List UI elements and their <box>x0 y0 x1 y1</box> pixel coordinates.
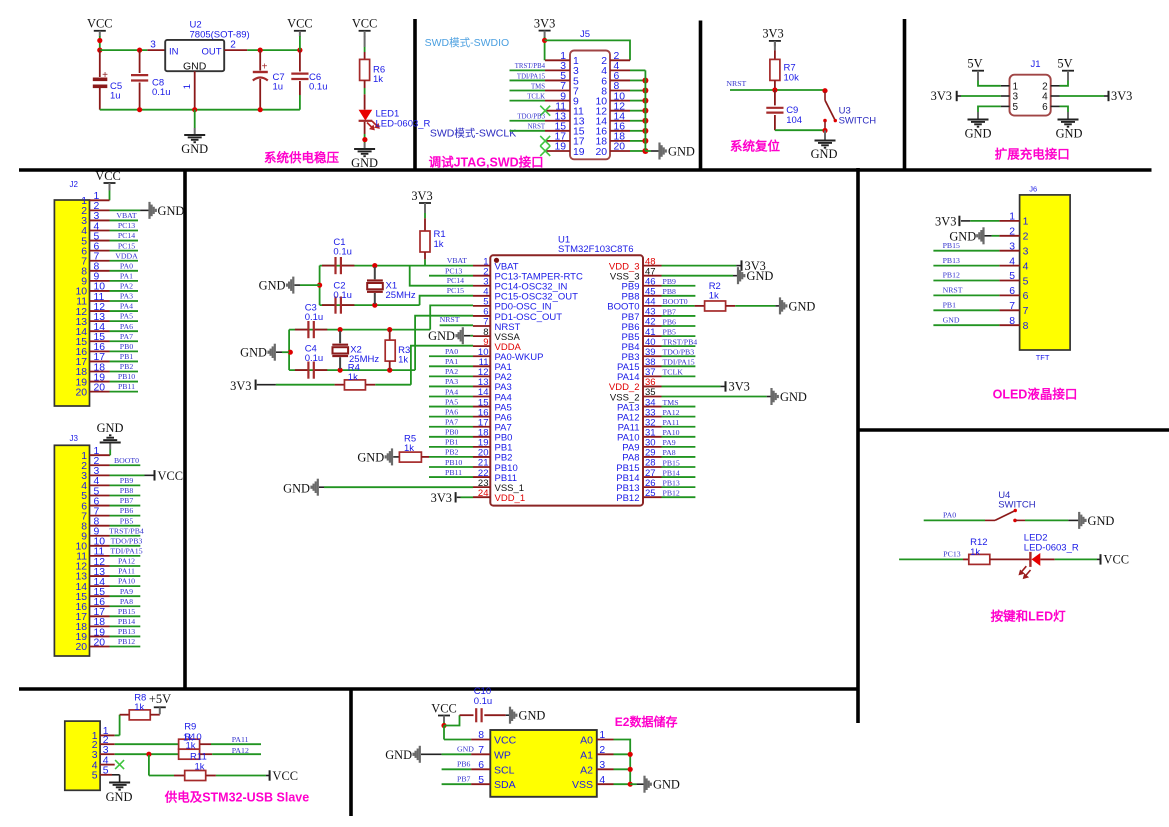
svg-text:系统供电稳压: 系统供电稳压 <box>264 150 340 165</box>
wire J3 pin 6 <box>110 505 141 507</box>
wire R10 to PA12 <box>212 753 261 755</box>
J2 pin 17 stub <box>90 360 110 362</box>
wire R9 to PA11 <box>211 743 261 745</box>
J3 pin 9 stub <box>90 535 110 537</box>
pin stub U2 pin3 IN <box>147 49 165 51</box>
wire MCU pin 14 PA4 <box>429 396 473 398</box>
svg-text:1k: 1k <box>186 741 196 752</box>
svg-text:PA1: PA1 <box>120 271 133 280</box>
svg-text:VCC: VCC <box>273 769 298 783</box>
svg-text:GND: GND <box>780 390 807 404</box>
MCU pin 41 stub <box>643 335 662 337</box>
MCU pin 20 stub <box>473 456 490 458</box>
svg-text:GND: GND <box>183 60 207 72</box>
J3 pin 6 stub <box>90 505 110 507</box>
wire MCU pin 27 PB14 <box>662 476 696 478</box>
svg-text:PA0: PA0 <box>120 261 133 270</box>
svg-text:VCC: VCC <box>95 169 120 183</box>
crystal X1 <box>374 267 376 279</box>
MCU pin 31 stub <box>643 436 662 438</box>
svg-text:PA10: PA10 <box>663 428 680 437</box>
svg-text:PB9: PB9 <box>622 282 640 293</box>
MCU pin 2 stub <box>473 275 490 277</box>
svg-text:10k: 10k <box>784 73 800 84</box>
wire bottom rail <box>100 109 300 111</box>
svg-text:SDA: SDA <box>494 779 516 791</box>
J5 pin 2 stub <box>610 59 630 61</box>
svg-text:A0: A0 <box>580 735 593 747</box>
svg-text:8: 8 <box>1023 321 1029 332</box>
junction dot bottom U2 GND <box>192 107 197 112</box>
J3 pin 4 stub <box>90 484 110 486</box>
wire WP <box>442 753 472 755</box>
MCU pin 34 stub <box>643 406 662 408</box>
svg-text:PB14: PB14 <box>118 617 135 626</box>
wire crystal2 bottom row <box>289 369 415 371</box>
svg-text:2: 2 <box>599 745 605 756</box>
ground symbol VSS_3 <box>737 267 739 284</box>
resistor R1 <box>420 231 430 252</box>
junction dot bottom C8 <box>137 107 142 112</box>
svg-text:WP: WP <box>494 749 511 761</box>
MCU pin 38 stub <box>643 365 662 367</box>
J1 pin 5 stub <box>1001 105 1010 107</box>
J3 pin 18 stub <box>90 625 110 627</box>
J5 pin 12 stub <box>610 110 630 112</box>
MCU pin 9 stub <box>473 345 490 347</box>
svg-text:1k: 1k <box>709 291 719 302</box>
resistor R9 <box>179 739 200 749</box>
svg-text:GND: GND <box>181 142 208 156</box>
MCU pin 39 stub <box>643 355 662 357</box>
wire R1 to VBAT <box>424 252 426 259</box>
wire PD0 OSC_IN from top row <box>430 305 473 329</box>
svg-text:系统复位: 系统复位 <box>730 139 781 154</box>
no-connect X USB pin4 <box>115 760 124 769</box>
wire MCU pin 46 PB9 <box>662 285 696 287</box>
wire J3 pin3 to VCC <box>110 474 145 476</box>
svg-text:TDI/PA15: TDI/PA15 <box>110 547 142 556</box>
svg-text:1k: 1k <box>348 372 358 383</box>
svg-text:PB15: PB15 <box>663 458 680 467</box>
ground symbol J5 <box>658 143 660 160</box>
wire VCC1 down <box>99 36 101 50</box>
wire J5 pin 18 to gnd bus <box>630 140 645 142</box>
svg-text:VCC: VCC <box>431 702 456 716</box>
wire J5 pin 12 to gnd bus <box>630 110 645 112</box>
svg-text:4: 4 <box>599 775 605 786</box>
wire MCU pin 33 PA12 <box>662 416 696 418</box>
svg-text:PA15: PA15 <box>617 362 640 373</box>
USB pin 2 stub <box>100 743 115 745</box>
J5 pin 11 stub <box>545 110 570 112</box>
J6 pin 5 stub <box>999 280 1019 282</box>
svg-text:GND: GND <box>965 127 992 141</box>
ground symbol J2 pin2 <box>148 202 150 219</box>
svg-text:39: 39 <box>645 347 656 358</box>
resistor R8 <box>120 714 130 716</box>
wire J2 pin 7 <box>110 260 139 262</box>
wire VCC3 to R6 <box>364 36 366 47</box>
svg-text:0.1u: 0.1u <box>152 87 171 98</box>
svg-text:20: 20 <box>75 642 87 653</box>
svg-text:31: 31 <box>645 427 656 438</box>
svg-text:1: 1 <box>182 84 193 89</box>
connector J5 box <box>570 51 610 160</box>
capacitor C5 polarized <box>99 50 101 77</box>
J2 pin 19 stub <box>90 381 110 383</box>
capacitor C9 <box>774 90 776 105</box>
wire J3 pin 7 <box>110 515 141 517</box>
J2 pin 4 stub <box>90 230 110 232</box>
svg-text:R9: R9 <box>184 722 196 733</box>
svg-text:NRST: NRST <box>726 79 746 88</box>
svg-text:VBAT: VBAT <box>116 211 137 220</box>
resistor R10 <box>179 749 200 759</box>
wire 5V to J1 pin2 <box>1067 71 1069 81</box>
wire J5 pin 9 <box>510 100 546 102</box>
MCU pin 14 stub <box>473 396 490 398</box>
svg-text:J6: J6 <box>1029 184 1037 193</box>
MCU pin 6 stub <box>473 315 490 317</box>
svg-text:PA14: PA14 <box>617 372 640 383</box>
section divider vertical MCU/right column <box>856 168 860 723</box>
svg-text:BOOT0: BOOT0 <box>663 297 688 306</box>
wire J2 pin2 to GND <box>110 209 141 211</box>
svg-text:VCC: VCC <box>1104 553 1129 567</box>
MCU pin 42 stub <box>643 325 662 327</box>
svg-text:20: 20 <box>614 142 626 153</box>
J3 pin 19 stub <box>90 635 110 637</box>
svg-text:PB6: PB6 <box>457 760 471 769</box>
J1 pin 2 stub <box>1051 85 1060 87</box>
MCU pin 24 stub <box>473 496 490 498</box>
svg-text:3V3: 3V3 <box>931 89 952 103</box>
wire MCU pin 38 TDI/PA15 <box>662 365 696 367</box>
svg-text:45: 45 <box>645 287 656 298</box>
wire GND to J3 pin1 <box>109 450 111 456</box>
svg-text:TDO/PB3: TDO/PB3 <box>517 114 545 121</box>
J3 pin 13 stub <box>90 575 110 577</box>
wire J1 pin4 to 3V3 <box>1060 95 1105 97</box>
svg-text:19: 19 <box>573 147 585 158</box>
svg-text:PB15: PB15 <box>616 463 639 474</box>
ground symbol J1 right <box>1058 119 1079 121</box>
svg-text:PA8: PA8 <box>622 453 639 464</box>
svg-text:104: 104 <box>786 115 802 126</box>
svg-text:0.1u: 0.1u <box>309 82 328 93</box>
svg-text:20: 20 <box>94 382 106 393</box>
J2 pin 15 stub <box>90 340 110 342</box>
capacitor C2 <box>322 304 336 306</box>
MCU pin 25 stub <box>643 496 662 498</box>
wire J5 pin 15 <box>510 130 546 132</box>
J5 pin 3 stub <box>545 69 570 71</box>
svg-text:30: 30 <box>645 438 656 449</box>
J6 pin 3 stub <box>999 250 1019 252</box>
svg-text:VDD_1: VDD_1 <box>495 493 526 504</box>
svg-text:47: 47 <box>645 266 656 277</box>
wire J2 pin 8 <box>110 270 139 272</box>
ground symbol C10 <box>506 714 510 716</box>
MCU pin 28 stub <box>643 466 662 468</box>
svg-text:PA7: PA7 <box>445 418 458 427</box>
svg-text:PB12: PB12 <box>118 637 135 646</box>
EEPROM pin 4 stub <box>597 783 614 785</box>
wire U2 OUT to VCC2 <box>247 49 300 51</box>
wire MCU pin 22 PB11 <box>429 476 473 478</box>
wire MCU pin 15 PA5 <box>429 406 473 408</box>
svg-text:7: 7 <box>1023 306 1029 317</box>
svg-text:6: 6 <box>1023 291 1029 302</box>
wire PC15 from C2 row <box>420 296 473 305</box>
svg-text:+: + <box>262 62 268 73</box>
svg-text:PC13: PC13 <box>445 266 462 275</box>
junction dot X1 bottom <box>372 303 377 308</box>
svg-text:27: 27 <box>645 468 656 479</box>
wire J2 pin 4 <box>110 230 139 232</box>
wire C9 bottom row <box>775 129 825 131</box>
LED LED1 <box>359 110 373 121</box>
svg-text:PB14: PB14 <box>663 468 680 477</box>
svg-text:29: 29 <box>645 448 656 459</box>
wire MCU pin 30 PA9 <box>662 446 696 448</box>
wire J3 pin 16 <box>110 605 141 607</box>
J3 pin 12 stub <box>90 565 110 567</box>
svg-text:PA13: PA13 <box>617 402 640 413</box>
wire 3V3 to R7 <box>774 41 776 50</box>
svg-text:19: 19 <box>554 142 566 153</box>
svg-text:VCC: VCC <box>158 469 183 483</box>
svg-text:GND: GND <box>811 147 838 161</box>
J2 pin 10 stub <box>90 290 110 292</box>
wire MCU pin 39 TDO/PB3 <box>662 355 696 357</box>
svg-text:1k: 1k <box>373 74 383 85</box>
svg-text:PB0: PB0 <box>120 342 134 351</box>
J2 pin 6 stub <box>90 250 110 252</box>
wire J3 pin 9 <box>110 535 141 537</box>
svg-text:PA2: PA2 <box>120 282 133 291</box>
wire J2 pin 3 <box>110 219 139 221</box>
J5 pin 8 stub <box>610 90 630 92</box>
svg-text:36: 36 <box>645 377 656 388</box>
wire J5 pin 3 <box>510 69 546 71</box>
J2 pin 9 stub <box>90 280 110 282</box>
svg-text:GND: GND <box>653 778 680 792</box>
svg-text:PA7: PA7 <box>120 332 133 341</box>
J2 pin 13 stub <box>90 320 110 322</box>
section divider vertical J2J3/MCU <box>183 170 187 689</box>
svg-text:5: 5 <box>478 775 484 786</box>
junction dot bottom C7 <box>258 107 263 112</box>
J3 pin 3 stub <box>90 474 110 476</box>
MCU pin 47 stub <box>643 275 662 277</box>
svg-text:34: 34 <box>645 397 656 408</box>
svg-text:1u: 1u <box>273 82 284 93</box>
svg-text:PB7: PB7 <box>622 312 640 323</box>
svg-text:PB3: PB3 <box>622 352 640 363</box>
svg-text:GND: GND <box>351 156 378 170</box>
svg-text:PB8: PB8 <box>622 292 640 303</box>
wire MCU pin 45 PB8 <box>662 295 696 297</box>
J6 pin 6 stub <box>999 294 1019 296</box>
capacitor C10 <box>460 714 474 716</box>
svg-text:PA1: PA1 <box>445 357 458 366</box>
wire J5 pin 10 to gnd bus <box>630 100 645 102</box>
svg-text:PC15: PC15 <box>118 241 135 250</box>
wire MCU pin 21 PB10 <box>429 466 473 468</box>
wire R7 to NRST row <box>774 80 776 90</box>
svg-text:+5V: +5V <box>149 692 171 706</box>
J5 pin 1 stub <box>545 59 570 61</box>
svg-text:SWD模式-SWDIO: SWD模式-SWDIO <box>425 36 510 49</box>
wire J2 pin 15 <box>110 340 139 342</box>
svg-text:1k: 1k <box>398 355 408 366</box>
wire PC13 to R12 <box>899 558 963 560</box>
wire MCU pin 34 TMS <box>662 406 696 408</box>
J2 pin 14 stub <box>90 330 110 332</box>
USB pin 3 stub <box>100 753 115 755</box>
wire R6 to LED1 <box>364 80 366 88</box>
junction dot GND crystal1 <box>317 283 322 288</box>
no-connect X on J5 pin 19 <box>540 146 550 156</box>
wire J6 pin1 to 3V3 <box>970 220 999 222</box>
svg-text:20: 20 <box>75 387 87 398</box>
svg-text:OUT: OUT <box>201 47 221 58</box>
MCU pin 46 stub <box>643 285 662 287</box>
svg-text:GND: GND <box>385 748 412 762</box>
wire A1 to bus <box>614 753 631 755</box>
svg-text:PB7: PB7 <box>457 775 471 784</box>
svg-text:VSS: VSS <box>572 779 593 791</box>
MCU pin 4 stub <box>473 295 490 297</box>
wire J2 pin 9 <box>110 280 139 282</box>
wire J3 pin 10 <box>110 545 141 547</box>
wire VSS to GND <box>630 783 636 785</box>
J5 pin 4 stub <box>610 69 630 71</box>
wire A2 to bus <box>614 768 631 770</box>
svg-text:25: 25 <box>645 488 656 499</box>
J3 pin 15 stub <box>90 595 110 597</box>
svg-text:GND: GND <box>747 269 774 283</box>
svg-text:41: 41 <box>645 327 656 338</box>
svg-text:VCC: VCC <box>494 735 517 747</box>
svg-text:3: 3 <box>599 760 605 771</box>
svg-text:GND: GND <box>240 346 267 360</box>
svg-text:7: 7 <box>1009 301 1015 312</box>
terminal 3V3 VDD_3 <box>741 260 743 270</box>
wire J3 pin 17 <box>110 615 141 617</box>
svg-text:3V3: 3V3 <box>411 189 432 203</box>
svg-text:按键和LED灯: 按键和LED灯 <box>991 609 1067 624</box>
section divider horizontal above USB/E2 <box>19 687 858 691</box>
J6 pin 8 stub <box>999 324 1019 326</box>
J2 pin 8 stub <box>90 270 110 272</box>
MCU pin 13 stub <box>473 385 490 387</box>
svg-text:3: 3 <box>1013 92 1019 103</box>
wire J3 pin 2 <box>110 464 141 466</box>
wire NRST mcu <box>440 324 473 326</box>
svg-text:24: 24 <box>478 488 489 499</box>
junction dot X2 top <box>338 327 343 332</box>
svg-text:28: 28 <box>645 458 656 469</box>
svg-text:GND: GND <box>428 329 455 343</box>
junction dot X2 bottom <box>338 368 343 373</box>
MCU pin 27 stub <box>643 476 662 478</box>
wire MCU pin 19 PB1 <box>429 446 473 448</box>
svg-text:LED-0603_R: LED-0603_R <box>1024 543 1079 554</box>
junction dot J5 bus pin 14 <box>642 118 648 124</box>
svg-text:6: 6 <box>1009 286 1015 297</box>
svg-text:PA10: PA10 <box>617 433 640 444</box>
svg-text:GND: GND <box>1088 514 1115 528</box>
svg-text:VSS_2: VSS_2 <box>610 392 640 403</box>
svg-text:TDI/PA15: TDI/PA15 <box>517 73 546 80</box>
svg-text:J2: J2 <box>70 180 79 189</box>
USB pin 1 stub <box>100 734 115 736</box>
svg-text:PA8: PA8 <box>663 448 676 457</box>
MCU pin 29 stub <box>643 456 662 458</box>
wire MCU pin 31 PA10 <box>662 436 696 438</box>
wire J6 pin 7 <box>933 309 999 311</box>
wire J6 pin 3 <box>933 250 999 252</box>
svg-text:5V: 5V <box>1057 57 1072 71</box>
svg-text:PA10: PA10 <box>118 577 135 586</box>
svg-text:PA6: PA6 <box>445 407 458 416</box>
svg-text:VCC: VCC <box>87 17 112 31</box>
svg-text:PA11: PA11 <box>663 418 680 427</box>
J2 pin 12 stub <box>90 310 110 312</box>
svg-text:+: + <box>102 70 108 81</box>
wire J3 pin 5 <box>110 494 141 496</box>
svg-text:TRST/PB4: TRST/PB4 <box>515 63 546 70</box>
wire J2 pin 11 <box>110 300 139 302</box>
ground symbol VSS_2 <box>770 388 772 405</box>
wire J5 pin 5 <box>510 79 546 81</box>
J3 pin 20 stub <box>90 646 110 648</box>
svg-text:38: 38 <box>645 357 656 368</box>
wire R11 to VCC <box>216 775 266 777</box>
switch U3 <box>824 92 826 100</box>
MCU pin 5 stub <box>473 305 490 307</box>
J3 pin 16 stub <box>90 605 110 607</box>
svg-text:BOOT0: BOOT0 <box>114 456 139 465</box>
svg-text:GND: GND <box>97 421 124 435</box>
svg-text:NRST: NRST <box>528 124 546 131</box>
svg-text:1k: 1k <box>195 762 205 773</box>
svg-text:PB10: PB10 <box>445 458 462 467</box>
MCU pin 26 stub <box>643 486 662 488</box>
svg-text:TMS: TMS <box>663 398 679 407</box>
J2 pin 2 stub <box>90 209 110 211</box>
wire USB pin3 row <box>115 753 178 755</box>
svg-text:1k: 1k <box>970 547 980 558</box>
J5 pin 10 stub <box>610 100 630 102</box>
resistor R7 <box>770 59 780 80</box>
svg-text:GND: GND <box>519 709 546 723</box>
wire MCU pin 18 PB0 <box>429 436 473 438</box>
capacitor C1 <box>322 265 336 267</box>
MCU pin 23 stub <box>473 486 490 488</box>
junction dot J5 bus pin 10 <box>642 98 648 104</box>
MCU pin 1 stub <box>473 265 490 267</box>
wire J6 pin 4 <box>933 265 999 267</box>
ground symbol E2 VSS <box>643 776 645 793</box>
wire VSS to bus <box>614 783 631 785</box>
J1 pin 6 stub <box>1051 105 1060 107</box>
J2 pin 3 stub <box>90 219 110 221</box>
resistor R6 <box>360 59 370 80</box>
